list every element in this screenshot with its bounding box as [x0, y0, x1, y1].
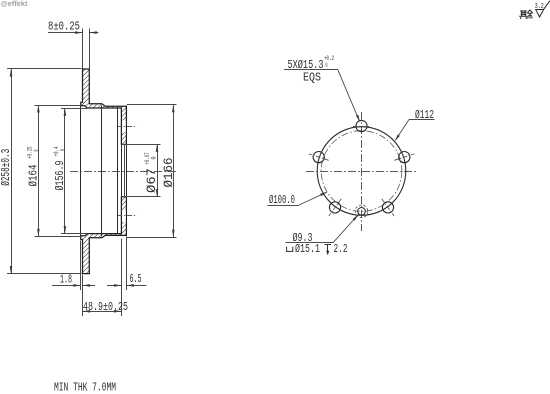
bolt hole gap in upper flange section [122, 120, 126, 132]
skirt outer face line [80, 105, 82, 238]
svg-text:0: 0 [151, 156, 158, 159]
dimension Ø166 extension lines [127, 104, 177, 106]
bore upper edge + extension [121, 144, 160, 146]
dimension Ø164 extension lines [35, 105, 81, 107]
dimension 48.9±0.25 line and arrows [83, 311, 122, 313]
bolt hole lower-left [329, 202, 340, 213]
svg-text:0: 0 [326, 62, 328, 69]
bolt circle Ø112 [317, 127, 406, 216]
svg-text:Ø166: Ø166 [162, 158, 176, 188]
dimension Ø156.9 extension lines [61, 108, 87, 110]
bolt hole upper-left [313, 152, 324, 163]
centerline disc axis [70, 171, 177, 173]
svg-text:Ø67: Ø67 [145, 168, 159, 193]
dimension 8±0.25 extension lines [82, 29, 84, 69]
svg-text:EQS: EQS [303, 71, 321, 84]
bolt hole centreline top [117, 126, 137, 128]
svg-text:48.9±0.25: 48.9±0.25 [83, 301, 128, 314]
disc section upper half (hatched) [81, 69, 127, 144]
bore lower edge + extension [121, 196, 160, 198]
chinese characters qi yu (all others) [519, 10, 533, 19]
flange inner face through bore [126, 144, 128, 196]
hat inner corner line [117, 108, 119, 234]
svg-text:Ø156.9: Ø156.9 [54, 160, 67, 190]
svg-text:Ø15.1: Ø15.1 [295, 243, 320, 256]
hat step line [101, 106, 103, 237]
dimension 6.5 line and arrows [107, 285, 121, 287]
svg-text:6.5: 6.5 [130, 273, 142, 286]
bolt hole lower-right [382, 202, 393, 213]
bolt hole gap in lower flange section [122, 210, 126, 222]
dimension 8±0.25 line and arrows [48, 32, 83, 34]
centerline horizontal (right view) [306, 171, 417, 173]
bore chamfer line [124, 144, 126, 196]
circle Ø100.0 (dash-dot) [321, 131, 402, 212]
svg-text:0: 0 [60, 149, 67, 151]
set screw hole Ø9.3 [358, 208, 366, 216]
dimension 1.8 extension lines [80, 241, 82, 291]
svg-text:MIN THK 7.0MM: MIN THK 7.0MM [54, 381, 116, 394]
disc section lower half (hatched) [81, 197, 127, 274]
centerline vertical (right view) [361, 112, 363, 231]
svg-text:5XØ15.3: 5XØ15.3 [288, 59, 324, 72]
bolt hole top [356, 120, 367, 131]
bolt hole upper-right [399, 152, 410, 163]
dimension Ø164 line and arrows [38, 105, 40, 236]
dimension Ø166 line and arrows [173, 105, 175, 238]
svg-text:1.8: 1.8 [60, 274, 72, 287]
svg-text:8±0.25: 8±0.25 [48, 21, 80, 34]
counterbore Ø15.1 (dashed) [355, 205, 368, 218]
dimension 6.5 extension lines [121, 239, 123, 316]
svg-text:Ø164: Ø164 [28, 164, 41, 186]
flange mounting face through bore [121, 144, 123, 196]
dimension Ø156.9 line and arrows [64, 108, 66, 233]
svg-text:@effekt: @effekt [1, 0, 29, 8]
dimension Ø67 line and arrows [157, 144, 159, 196]
dimension Ø258±0.3 line and arrows [11, 69, 13, 274]
svg-text:2.2: 2.2 [334, 243, 348, 256]
dimension Ø258±0.3 extension lines [7, 68, 82, 70]
svg-text:0: 0 [33, 149, 40, 151]
bolt hole centreline bottom [117, 215, 137, 217]
svg-text:Ø258±0.3: Ø258±0.3 [0, 149, 13, 186]
svg-text:Ø112: Ø112 [415, 109, 434, 122]
dimension 1.8 line and arrows [52, 285, 81, 287]
